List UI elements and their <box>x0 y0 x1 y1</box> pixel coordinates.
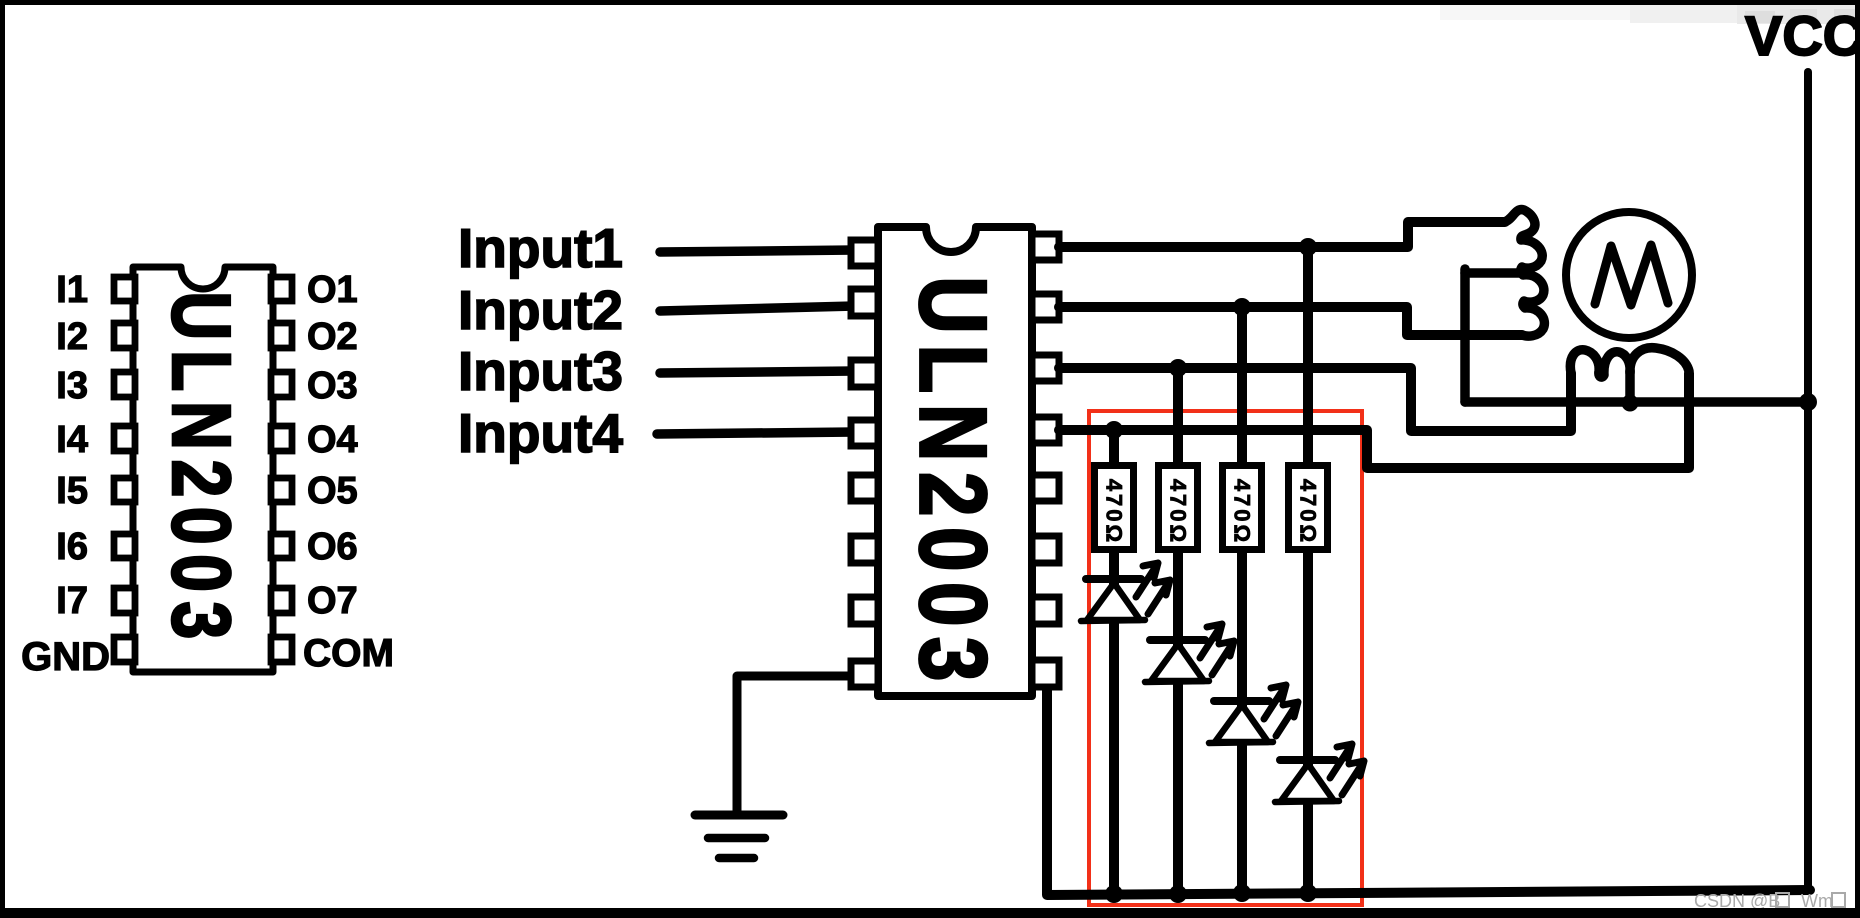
svg-text:Input3: Input3 <box>458 340 623 402</box>
svg-text:I3: I3 <box>56 365 88 407</box>
node bus-branch3 <box>1233 884 1251 902</box>
svg-text:I7: I7 <box>56 580 88 622</box>
U2 right pins 16-9 <box>1032 234 1059 687</box>
node bus-branch2 <box>1169 885 1187 903</box>
U1 pin labels right <box>303 269 394 675</box>
ground symbol <box>695 815 783 858</box>
U2 left pins 1-8 <box>851 240 878 687</box>
common rail to VCC <box>1465 397 1808 407</box>
node O3-branch2 <box>1169 359 1187 377</box>
svg-text:ULN2003: ULN2003 <box>900 276 1006 692</box>
svg-text:470Ω: 470Ω <box>1230 479 1255 545</box>
svg-text:GND: GND <box>21 635 110 679</box>
wire Input3 to U2 pin3 <box>660 371 855 373</box>
motor M1 <box>1566 212 1692 338</box>
svg-text:O3: O3 <box>307 365 358 407</box>
node O4-branch1 <box>1105 421 1123 439</box>
svg-text:O2: O2 <box>307 316 358 358</box>
wire O1 to coil A top <box>1059 222 1505 247</box>
svg-text:O6: O6 <box>307 526 358 568</box>
wire Input1 to U2 pin1 <box>660 250 855 252</box>
svg-text:Input2: Input2 <box>458 279 623 341</box>
coil B (lower winding) <box>1522 275 1544 336</box>
svg-text:ULN2003: ULN2003 <box>155 291 248 648</box>
wire O2 to coil B bottom <box>1059 307 1522 335</box>
coil C (bottom winding) 3 humps <box>1570 348 1689 377</box>
svg-text:470Ω: 470Ω <box>1102 479 1127 545</box>
U1 left pins I1-I7,GND <box>114 277 135 662</box>
watermark CSDN <box>1694 891 1845 912</box>
IC U1 body <box>133 267 273 672</box>
resistor R3 470 <box>1223 466 1262 550</box>
wire branch 3 <box>1237 307 1247 894</box>
U2 pin 9 drop wire <box>1042 687 1052 895</box>
svg-text:O1: O1 <box>307 269 358 311</box>
faint erased watermark smudge top right <box>1440 3 1858 24</box>
svg-text:I4: I4 <box>56 419 88 461</box>
U2 body <box>878 227 1032 696</box>
coil A (upper winding) <box>1408 210 1542 274</box>
bottom bus wire to VCC rail <box>1047 890 1810 895</box>
node bus-branch4 <box>1299 884 1317 902</box>
wire Input2 to U2 pin2 <box>660 306 855 311</box>
U1 right pins O1-O7,COM <box>271 277 292 662</box>
wire branch 2 <box>1173 368 1183 894</box>
wire branch 4 <box>1303 247 1313 893</box>
svg-text:VCC: VCC <box>1745 4 1860 67</box>
svg-text:COM: COM <box>303 632 394 675</box>
LED D1 <box>1081 563 1170 621</box>
winding center tap link <box>1465 268 1521 278</box>
svg-text:O5: O5 <box>307 470 358 512</box>
resistor R2 470 <box>1159 466 1198 550</box>
wire branch 1 <box>1109 430 1119 895</box>
svg-text:Input1: Input1 <box>458 217 623 279</box>
node coilC tap on rail <box>1622 395 1639 412</box>
wire U2 pin8 to ground <box>737 676 851 812</box>
center tap down wire <box>1460 269 1470 402</box>
input wires <box>657 250 855 434</box>
node rail-VCC <box>1799 393 1817 411</box>
node O1-branch4 <box>1299 238 1317 256</box>
U1 pin labels left <box>21 269 110 679</box>
svg-text:I1: I1 <box>56 269 88 311</box>
resistor R1 470 <box>1095 466 1134 550</box>
resistor R4 470 <box>1289 466 1328 550</box>
LED D3 <box>1209 685 1298 743</box>
VCC rail vertical <box>1804 72 1812 889</box>
motor letter M <box>1595 245 1668 305</box>
wire O4 to coil C right end <box>1059 373 1689 468</box>
LED D4 <box>1275 744 1364 802</box>
svg-text:470Ω: 470Ω <box>1296 479 1321 545</box>
wire O3 to coil C left end <box>1059 368 1571 431</box>
svg-text:O7: O7 <box>307 580 358 622</box>
node bus-branch1 <box>1105 885 1123 903</box>
svg-text:I2: I2 <box>56 316 88 358</box>
coil C center tap <box>1625 371 1635 400</box>
svg-text:I5: I5 <box>56 470 88 512</box>
svg-text:470Ω: 470Ω <box>1166 479 1191 545</box>
wire Input4 to U2 pin4 <box>657 432 855 434</box>
node O2-branch3 <box>1233 298 1251 316</box>
svg-text:O4: O4 <box>307 419 358 461</box>
svg-text:Input4: Input4 <box>458 402 623 464</box>
svg-text:I6: I6 <box>56 526 88 568</box>
LED D2 <box>1145 624 1234 682</box>
